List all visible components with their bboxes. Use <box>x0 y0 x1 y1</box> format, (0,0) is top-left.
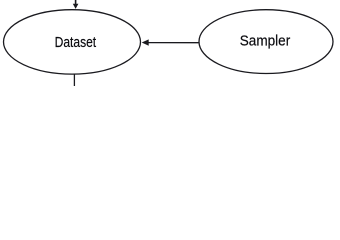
svg-text:Dataset: Dataset <box>55 34 97 51</box>
svg-text:Sampler: Sampler <box>240 33 291 50</box>
